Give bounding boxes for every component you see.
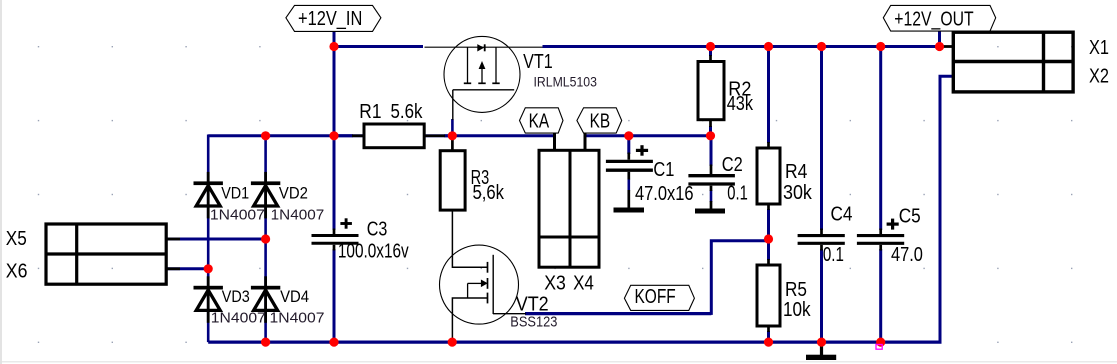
net flag KA [520, 108, 564, 133]
grid dots decorative [38, 46, 39, 47]
svg-text:C2: C2 [722, 154, 743, 176]
pin X3 stub from KA [553, 133, 556, 150]
svg-text:IRLML5103: IRLML5103 [534, 74, 597, 89]
pin R2 bottom [709, 120, 712, 127]
wire R1 right navy [444, 134, 452, 137]
svg-text:VD2: VD2 [279, 184, 308, 202]
pin C3 bottom stub [333, 245, 336, 251]
svg-text:1N4007: 1N4007 [271, 207, 325, 224]
wire R1 left navy [334, 134, 353, 137]
wire KOFF horizontal [525, 312, 711, 315]
svg-text:30k: 30k [783, 182, 813, 204]
pin R1 left [352, 134, 364, 137]
svg-text:47.0: 47.0 [891, 244, 923, 266]
svg-text:X1: X1 [1089, 37, 1109, 59]
svg-text:+12V_IN: +12V_IN [298, 8, 362, 30]
capacitor C5 plus [887, 219, 899, 230]
wire C3 column lower lead [333, 249, 336, 342]
svg-text:100.0x16v: 100.0x16v [338, 241, 409, 263]
wire C1 top lead [627, 136, 630, 154]
pin R4 bottom [767, 204, 770, 210]
capacitor C2 plates [688, 176, 735, 184]
pin C4 top stub [820, 229, 823, 235]
pin X5 stub [166, 238, 180, 241]
node C3 bottom bus junction [329, 338, 338, 347]
pin X4 stub from KB [584, 133, 587, 150]
wire R5 bottom pin [767, 331, 770, 342]
wire X5 row [166, 238, 265, 241]
VT1 source finger [467, 47, 469, 83]
capacitor C3 plates [312, 236, 359, 244]
wire R4 bottom to node [767, 209, 770, 241]
wire C4 column lower [820, 249, 823, 342]
relay contacts X3 X4 box [539, 150, 599, 267]
svg-text:KB: KB [590, 110, 611, 132]
resistor R1 [364, 124, 424, 148]
wire mid rail KB segment [585, 134, 712, 137]
pin VT1 gate thin [452, 90, 454, 120]
VT1 body finger with arrow [481, 67, 483, 84]
node R4 top junction [764, 42, 773, 51]
node R5 bottom bus junction [764, 338, 773, 347]
node R4/R5 junction [764, 234, 773, 243]
wire X6 row [166, 267, 208, 270]
node C5 bottom bus junction [876, 338, 885, 347]
svg-text:1N4007: 1N4007 [210, 207, 265, 224]
diode VD4 [251, 276, 280, 323]
pin R5 top [767, 259, 770, 265]
pin R4 top [767, 142, 770, 148]
svg-text:BSS123: BSS123 [510, 314, 557, 331]
page border bottom [0, 361, 1117, 363]
pin R5 bottom [767, 326, 770, 332]
wire C1 bottom lead navy part [627, 179, 630, 191]
transistor VT1 (IRLML5103 p-MOSFET) [444, 36, 520, 112]
pin C5 bottom stub [879, 245, 882, 251]
node VD2 top junction [261, 131, 270, 140]
diode VD1 [194, 172, 223, 219]
node R2 top junction [706, 42, 715, 51]
node R1/R3 junction [448, 131, 457, 140]
svg-text:43k: 43k [727, 93, 754, 115]
svg-text:VT1: VT1 [523, 51, 553, 73]
wire C5 column upper [879, 47, 882, 231]
svg-text:1N4007: 1N4007 [211, 310, 266, 327]
pin C2 ground stub [710, 201, 713, 209]
capacitor C1 plus [636, 145, 648, 156]
node X6 row junction [204, 264, 213, 273]
node VT2 source bus junction [448, 338, 457, 347]
ground symbol at bottom bus [806, 344, 836, 360]
wire top bus right segment [543, 45, 942, 48]
svg-text:C1: C1 [653, 159, 674, 181]
pin C2 top stub [710, 165, 713, 175]
pin C1 top stub [627, 153, 630, 160]
pin VT2 gate thin to KOFF [493, 313, 526, 315]
page border left [0, 0, 2, 364]
svg-text:0.1: 0.1 [823, 244, 844, 266]
svg-text:+12V_OUT: +12V_OUT [894, 9, 973, 31]
wire VT1 drain-source thin line [425, 46, 543, 48]
svg-text:VT2: VT2 [516, 293, 549, 315]
wire R2 top pin [709, 47, 712, 57]
svg-text:X5: X5 [6, 228, 27, 250]
pin C3 top stub [333, 229, 336, 235]
diode VD2 [251, 172, 280, 219]
wire R4 top column [767, 47, 770, 144]
svg-text:VD3: VD3 [222, 288, 250, 306]
svg-text:5,6k: 5,6k [473, 182, 505, 204]
wire +12V_OUT flag stub [938, 31, 941, 46]
pin VT2 source lead to ground bus [452, 298, 487, 341]
ground under C2 [695, 209, 725, 214]
svg-text:R4: R4 [785, 161, 807, 183]
wire R5 top pin [767, 239, 770, 260]
capacitor C1 plates [606, 161, 653, 170]
VT1 channel feet [464, 82, 471, 84]
VT2 body finger with arrow [468, 282, 482, 284]
wire VT1 gate navy tick [451, 119, 454, 136]
node X5 row junction [261, 234, 270, 243]
wire +12V_IN flag stub [333, 32, 336, 47]
resistor R3 [440, 151, 465, 210]
pin R3 bottom / VT2 drain lead [452, 210, 487, 267]
svg-text:C4: C4 [831, 204, 853, 226]
svg-text:R1: R1 [359, 101, 381, 123]
svg-text:1N4007: 1N4007 [270, 310, 325, 327]
svg-text:VD4: VD4 [280, 288, 309, 306]
wire C5 column lower [879, 249, 882, 342]
wire C3 column upper lead [333, 136, 336, 230]
net flag KB [577, 108, 622, 133]
VT1 body diode [477, 44, 484, 51]
node VD2 bottom bus junction [261, 338, 270, 347]
svg-text:5.6k: 5.6k [391, 101, 424, 123]
svg-text:0.1: 0.1 [727, 183, 748, 205]
node +12V_OUT junction [935, 42, 944, 51]
svg-text:VD1: VD1 [221, 184, 249, 202]
wire X2 to ground bus [940, 76, 954, 342]
wire bridge column VD2/VD4 [264, 136, 267, 342]
pin X6 stub [166, 267, 180, 270]
node C3 top junction [329, 131, 338, 140]
VT2 gate bar [492, 255, 494, 314]
node C4 top junction [817, 42, 826, 51]
wire C2 top lead [710, 136, 713, 166]
net flag +12V_OUT [883, 5, 995, 31]
resistor R5 [757, 265, 780, 326]
resistor R2 [698, 62, 724, 120]
net flag KOFF [624, 285, 694, 310]
svg-text:C5: C5 [899, 206, 921, 228]
resistor R4 [757, 148, 780, 204]
ground under C1 [614, 208, 645, 213]
wire bridge column VD1/VD3 [207, 135, 210, 343]
pin C4 bottom stub [820, 245, 823, 251]
VT2 channel feet [487, 262, 489, 273]
pin R1 right [424, 134, 445, 137]
svg-text:X2: X2 [1089, 66, 1109, 88]
pin C1 ground stub [627, 190, 630, 208]
svg-text:R5: R5 [785, 279, 807, 301]
svg-text:47.0x16: 47.0x16 [635, 183, 694, 205]
node +12V_IN junction [329, 42, 338, 51]
pin C2 bottom stub [710, 186, 713, 191]
wire C2 bottom lead navy part [710, 190, 713, 202]
net flag +12V_IN [286, 5, 381, 31]
wire input column C3 upper [333, 47, 336, 136]
wire ground bottom bus [208, 341, 941, 344]
svg-text:10k: 10k [783, 299, 811, 321]
connector X1 X2 [953, 32, 1073, 92]
transistor VT2 (BSS123 n-MOSFET) [440, 245, 519, 324]
wire R2 bottom pin [709, 126, 712, 136]
svg-text:X6: X6 [6, 261, 28, 283]
node C1 top junction [624, 131, 633, 140]
VT1 gate bar [453, 89, 514, 91]
wire top bus left segment [333, 45, 424, 48]
capacitor C4 plates [798, 236, 845, 244]
capacitor C3 plus [340, 218, 352, 228]
node ground bus junction [817, 338, 826, 347]
VT1 drain finger [495, 47, 497, 83]
marker magenta connection point [876, 345, 882, 350]
pin R3 top [451, 138, 454, 151]
wire C4 column upper [820, 47, 823, 231]
svg-text:KOFF: KOFF [635, 286, 676, 308]
pin C5 top stub [879, 229, 882, 235]
node R2 bottom junction [706, 131, 715, 140]
capacitor C5 plates [857, 236, 904, 244]
wire KOFF riser to R4/R5 node [711, 241, 768, 315]
svg-text:C3: C3 [367, 219, 388, 241]
pin X1 stub [941, 45, 954, 48]
diode VD3 [194, 276, 223, 323]
svg-text:KA: KA [529, 110, 550, 132]
pin C1 bottom stub [627, 172, 630, 180]
svg-text:X3: X3 [544, 273, 566, 295]
node C5 top junction [876, 42, 885, 51]
pin R2 top [709, 55, 712, 62]
svg-text:X4: X4 [573, 273, 594, 295]
wire mid rail KA segment [208, 134, 554, 137]
connector X5 X6 [46, 224, 166, 284]
